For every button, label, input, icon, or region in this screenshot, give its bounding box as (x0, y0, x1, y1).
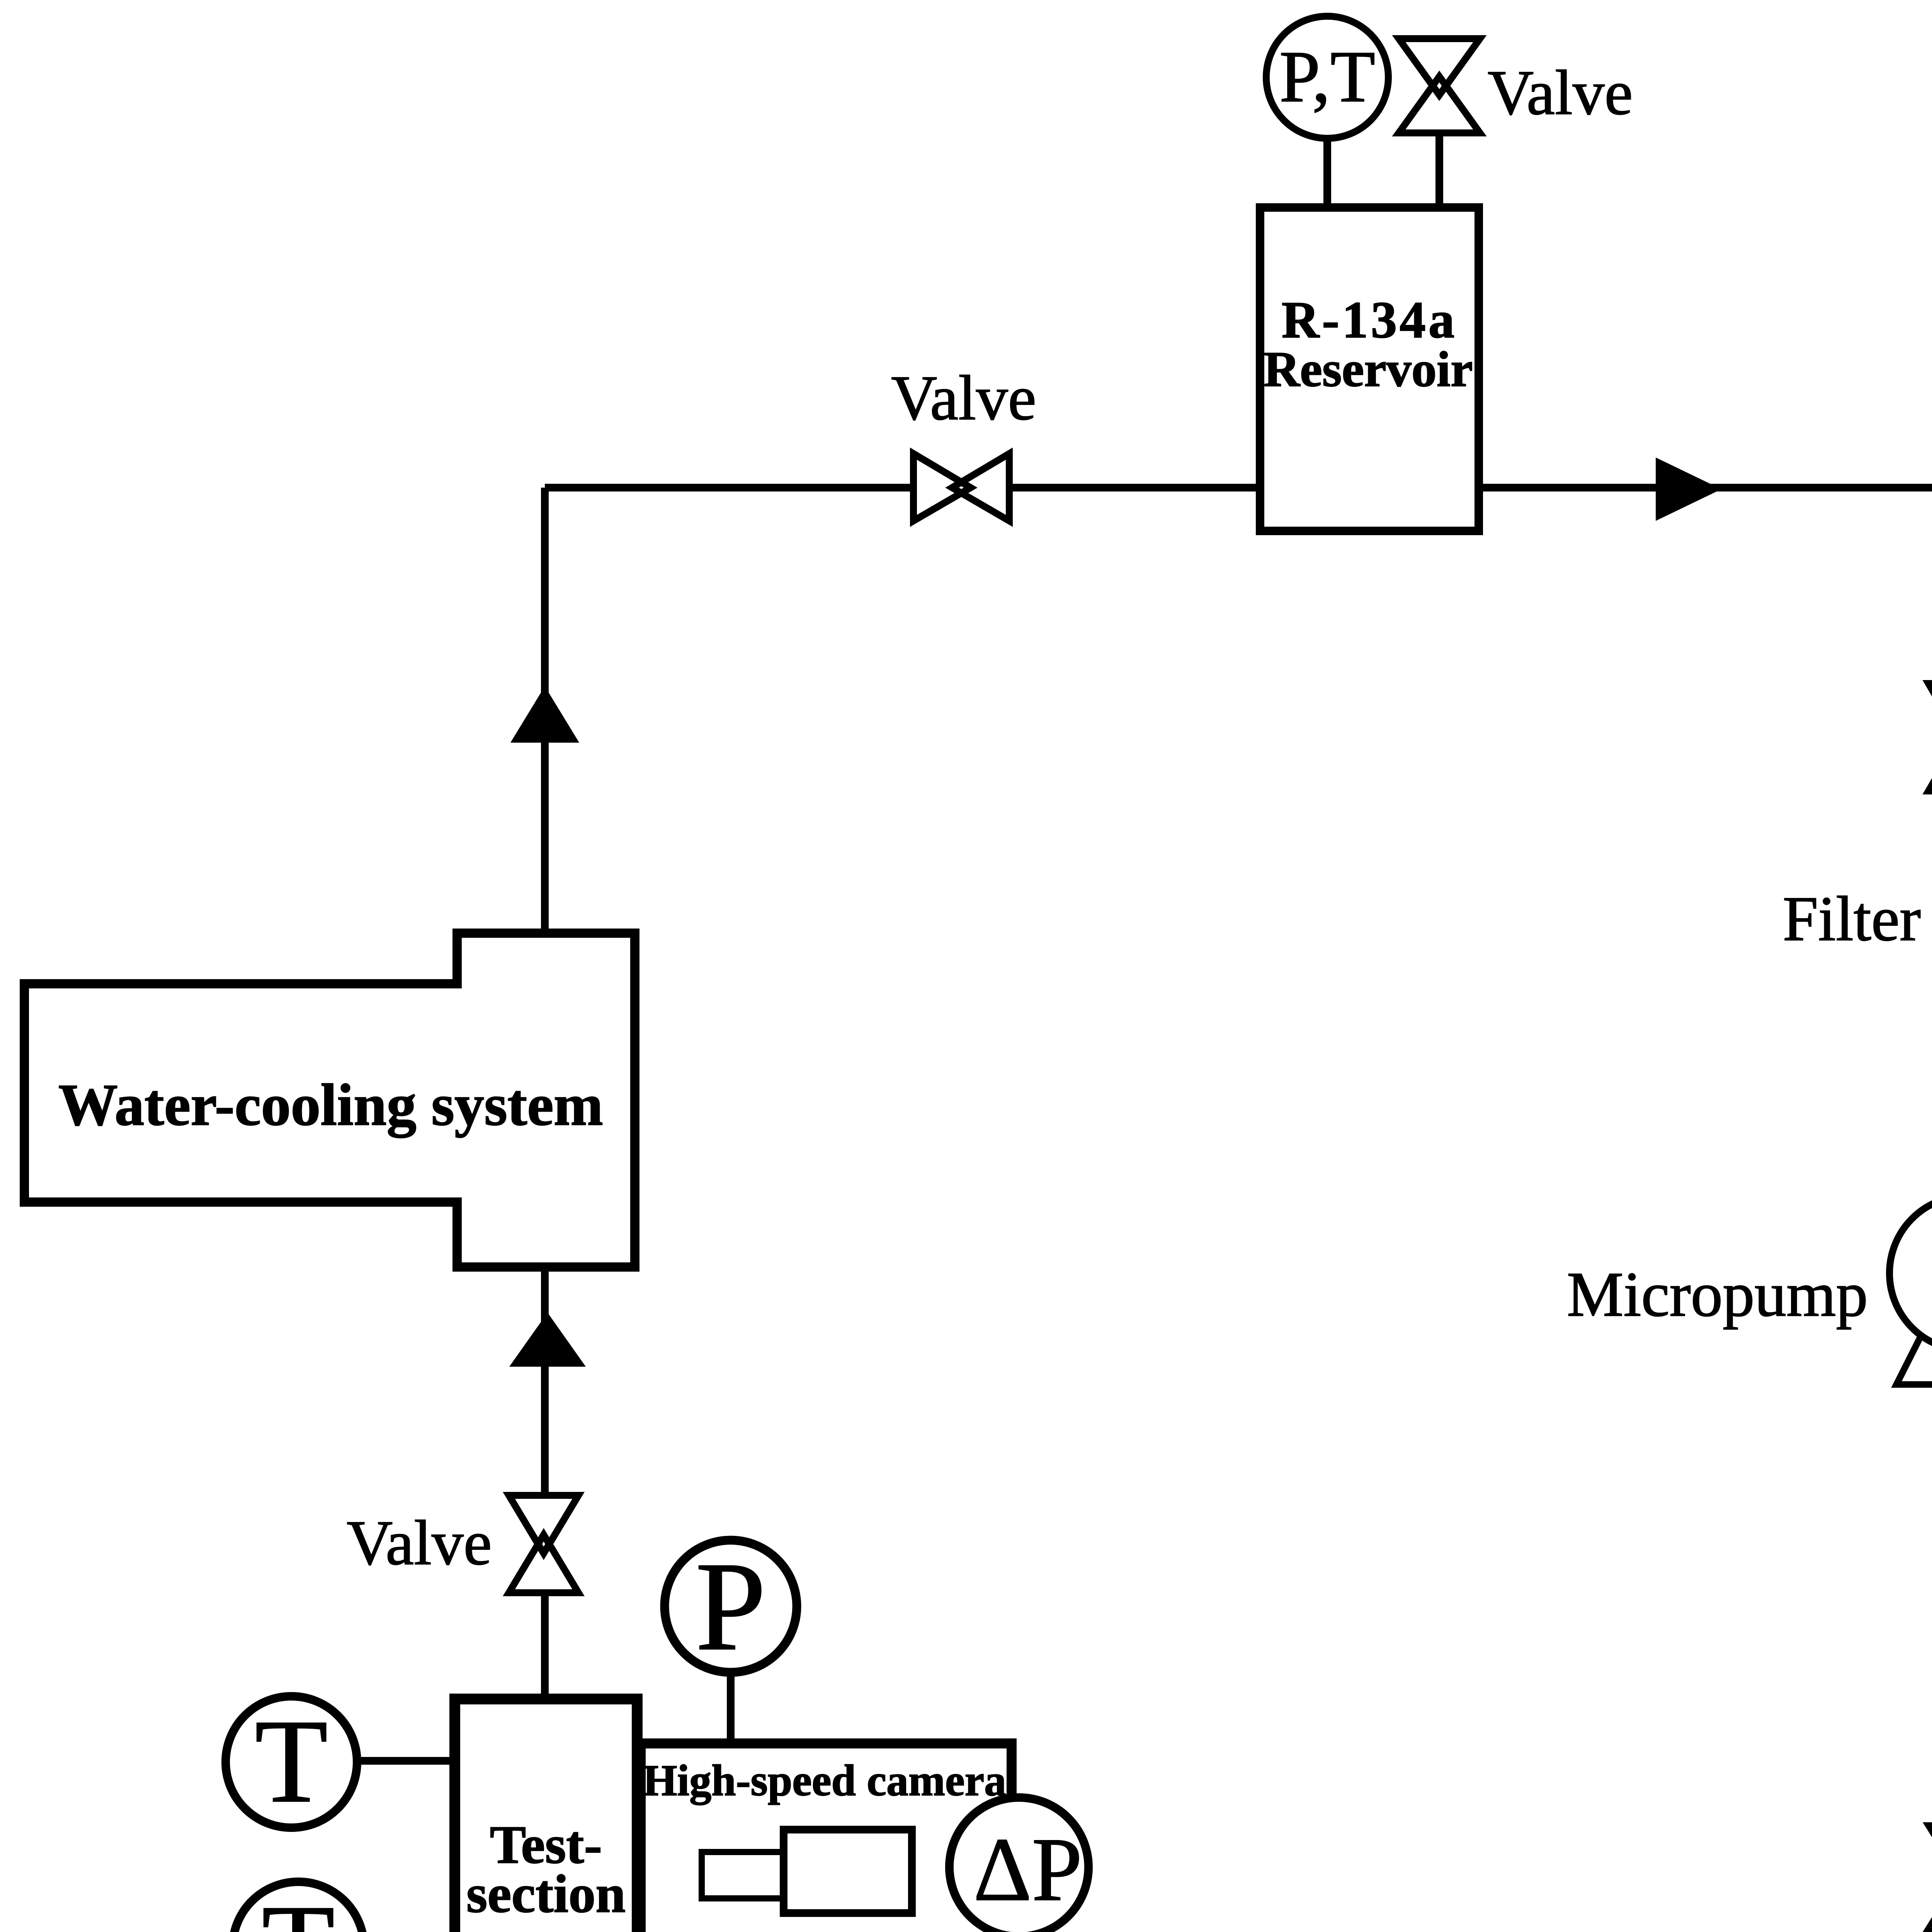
svg-text:ΔP: ΔP (973, 1819, 1082, 1920)
svg-text:Reservoir: Reservoir (1264, 342, 1473, 397)
svg-text:P,T: P,T (1279, 36, 1375, 117)
svg-text:Micropump: Micropump (1567, 1259, 1868, 1330)
svg-text:Valve: Valve (1488, 57, 1633, 128)
svg-text:T: T (262, 1881, 335, 1932)
svg-text:P: P (695, 1536, 766, 1677)
svg-text:T: T (255, 1695, 328, 1828)
svg-text:Valve: Valve (891, 362, 1036, 433)
svg-text:R-134a: R-134a (1282, 291, 1457, 349)
svg-text:Filter: Filter (1783, 883, 1921, 954)
svg-text:Water-cooling system: Water-cooling system (58, 1072, 603, 1138)
svg-text:High-speed camera: High-speed camera (643, 1756, 1006, 1805)
svg-text:Valve: Valve (347, 1507, 492, 1578)
svg-text:section: section (466, 1864, 626, 1924)
